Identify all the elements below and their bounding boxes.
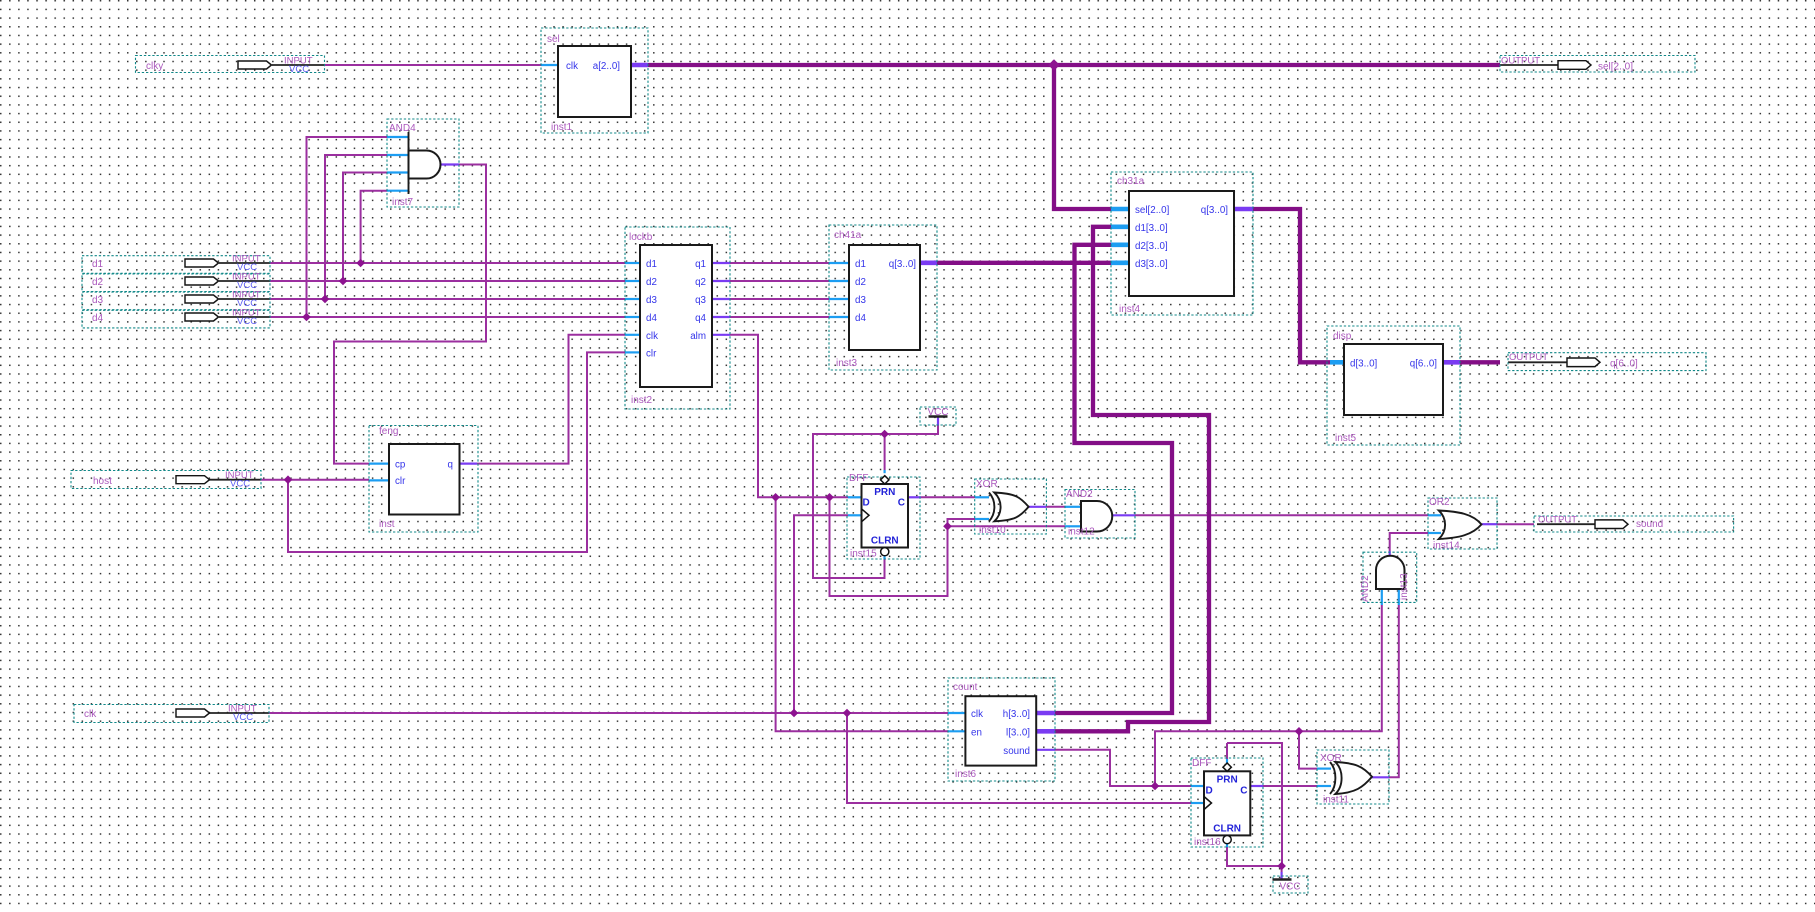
svg-text:inst5: inst5 — [1335, 433, 1357, 444]
svg-text:inst3: inst3 — [836, 358, 858, 369]
svg-text:OUTPUT: OUTPUT — [1509, 352, 1548, 363]
svg-text:d2[3..0]: d2[3..0] — [1135, 241, 1168, 252]
svg-text:q[3..0]: q[3..0] — [1201, 205, 1229, 216]
svg-text:d4: d4 — [92, 313, 104, 324]
svg-text:inst10: inst10 — [979, 525, 1006, 536]
svg-text:d1: d1 — [646, 259, 657, 270]
svg-text:DFF: DFF — [849, 473, 868, 484]
svg-text:AND4: AND4 — [389, 123, 416, 134]
svg-text:sound: sound — [1636, 519, 1663, 530]
svg-text:sound: sound — [1003, 746, 1030, 757]
svg-text:en: en — [971, 727, 982, 738]
svg-text:CLRN: CLRN — [871, 536, 899, 547]
svg-text:q3: q3 — [695, 295, 706, 306]
svg-text:C: C — [1240, 786, 1247, 797]
svg-text:q1: q1 — [695, 259, 706, 270]
svg-text:d4: d4 — [646, 313, 657, 324]
svg-text:inst6: inst6 — [955, 769, 977, 780]
svg-text:d3[3..0]: d3[3..0] — [1135, 259, 1168, 270]
svg-text:l[3..0]: l[3..0] — [1006, 727, 1030, 738]
svg-text:feng: feng — [379, 426, 398, 437]
svg-text:XOR: XOR — [976, 479, 998, 490]
svg-text:cp: cp — [395, 459, 406, 470]
svg-text:clk: clk — [971, 709, 983, 720]
svg-text:d3: d3 — [646, 295, 657, 306]
svg-text:q4: q4 — [695, 313, 706, 324]
svg-text:OUTPUT: OUTPUT — [1538, 515, 1577, 526]
svg-text:sel[2..0]: sel[2..0] — [1598, 62, 1633, 73]
svg-text:AND2: AND2 — [1066, 489, 1093, 500]
svg-text:disp: disp — [1333, 331, 1352, 342]
svg-text:clr: clr — [395, 476, 406, 487]
svg-text:DFF: DFF — [1192, 758, 1211, 769]
svg-text:d3: d3 — [92, 295, 104, 306]
svg-text:d1: d1 — [855, 259, 866, 270]
svg-text:d3: d3 — [855, 295, 866, 306]
svg-text:d4: d4 — [855, 313, 866, 324]
svg-text:VCC: VCC — [233, 712, 253, 723]
svg-text:d[3..0]: d[3..0] — [1350, 358, 1378, 369]
svg-text:d1: d1 — [92, 259, 104, 270]
svg-text:ch41a: ch41a — [834, 230, 862, 241]
svg-text:sel: sel — [547, 34, 560, 45]
svg-text:d1[3..0]: d1[3..0] — [1135, 223, 1168, 234]
svg-text:D: D — [863, 498, 870, 509]
svg-text:q[3..0]: q[3..0] — [889, 259, 917, 270]
svg-text:VCC: VCC — [230, 479, 250, 490]
svg-text:inst13: inst13 — [1399, 573, 1410, 600]
svg-text:PRN: PRN — [1217, 774, 1238, 785]
svg-text:inst15: inst15 — [850, 549, 877, 560]
svg-text:clky: clky — [146, 61, 163, 72]
svg-text:VCC: VCC — [1279, 882, 1300, 893]
svg-text:inst1: inst1 — [551, 122, 573, 133]
svg-text:host: host — [93, 476, 112, 487]
svg-text:clk: clk — [566, 61, 578, 72]
svg-text:q[6..0]: q[6..0] — [1410, 358, 1438, 369]
svg-text:OR2: OR2 — [1429, 497, 1450, 508]
svg-text:inst12: inst12 — [1068, 527, 1095, 538]
svg-text:inst11: inst11 — [1323, 795, 1349, 806]
svg-text:sel[2..0]: sel[2..0] — [1135, 205, 1170, 216]
svg-text:inst7: inst7 — [392, 197, 414, 208]
svg-text:inst14: inst14 — [1433, 541, 1460, 552]
svg-text:d2: d2 — [92, 277, 104, 288]
svg-text:VCC: VCC — [237, 316, 257, 327]
svg-text:CLRN: CLRN — [1213, 823, 1241, 834]
svg-text:alm: alm — [690, 331, 706, 342]
svg-text:XOR: XOR — [1320, 753, 1342, 764]
svg-text:VCC: VCC — [927, 407, 948, 418]
svg-text:AND2: AND2 — [1360, 575, 1371, 602]
svg-text:count: count — [953, 682, 978, 693]
svg-text:inst: inst — [379, 519, 395, 530]
svg-text:OUTPUT: OUTPUT — [1501, 56, 1540, 67]
svg-text:clr: clr — [646, 348, 657, 359]
svg-text:q[6..0]: q[6..0] — [1610, 358, 1638, 369]
svg-text:C: C — [898, 498, 905, 509]
svg-text:d2: d2 — [855, 277, 866, 288]
svg-text:clk: clk — [646, 331, 658, 342]
svg-text:VCC: VCC — [289, 64, 309, 75]
svg-text:lockb: lockb — [629, 232, 653, 243]
svg-text:inst4: inst4 — [1119, 304, 1141, 315]
svg-text:q: q — [448, 459, 453, 470]
svg-text:q2: q2 — [695, 277, 706, 288]
svg-text:inst16: inst16 — [1194, 837, 1221, 848]
svg-text:ch31a: ch31a — [1117, 176, 1145, 187]
svg-text:inst2: inst2 — [631, 395, 653, 406]
svg-text:d2: d2 — [646, 277, 657, 288]
svg-text:clk: clk — [84, 709, 97, 720]
svg-text:a[2..0]: a[2..0] — [593, 61, 621, 72]
svg-text:PRN: PRN — [874, 487, 895, 498]
svg-text:D: D — [1206, 786, 1213, 797]
svg-text:h[3..0]: h[3..0] — [1003, 709, 1031, 720]
